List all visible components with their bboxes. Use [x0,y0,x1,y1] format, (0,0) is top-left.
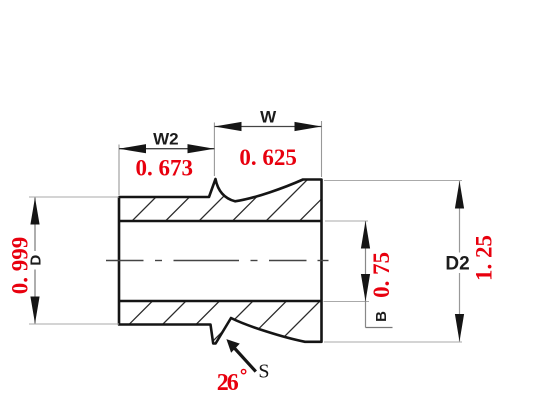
dimension D: extension line bottom [29,323,119,325]
bore bottom line [119,300,322,302]
dimension D2: bottom arrow [455,314,464,342]
dimension D: bottom arrow [30,297,39,324]
hatching (section lines) [3,170,451,350]
part outline (outer profile) [119,179,322,344]
svg-text:0. 625: 0. 625 [239,145,297,170]
dimension D2: line upper segment [459,181,461,253]
svg-text:B: B [373,311,390,322]
bore top line [119,220,322,222]
dimension D2: extension line bottom [324,341,462,343]
dimension B: extension line top [325,220,368,222]
svg-text:0. 75: 0. 75 [369,252,394,298]
dimension W2: right arrow [188,144,215,153]
dimension W: left arrow [214,122,241,131]
svg-text:0. 673: 0. 673 [136,156,194,181]
dimension W: extension line left [213,123,215,177]
dimension B: vertical line [365,221,367,328]
svg-text:D2: D2 [445,254,469,275]
dimension D: top arrow [30,198,39,225]
dimension D: line lower segment [34,270,36,324]
svg-text:0. 999: 0. 999 [8,237,33,295]
centerline [106,260,329,262]
svg-text:S: S [258,361,269,383]
dimension W: right arrow [295,122,322,131]
dimension W: extension line right [321,121,323,177]
svg-text:W: W [260,107,277,126]
dimension D: extension line top [29,196,119,198]
dimension D2: line lower segment [459,273,461,342]
dimension W2: extension line left [118,145,120,196]
dimension B: extension line bottom [324,301,370,303]
svg-text:1. 25: 1. 25 [472,235,497,281]
leader arrow to chamfer (S) [233,347,256,372]
dimension W: line [214,126,321,128]
dimension B: horizontal tail [366,327,393,329]
dimension D2: top arrow [455,181,464,209]
dimension B: top arrow [361,221,370,249]
dimension W2: line [119,148,214,150]
dimension B: bottom arrow [361,274,370,302]
svg-text:26: 26 [217,370,239,396]
svg-text:W2: W2 [153,129,179,148]
dimension D: line upper segment [34,198,36,252]
dimension D2: extension line top [324,180,462,182]
dimension W2: left arrow [119,144,146,153]
